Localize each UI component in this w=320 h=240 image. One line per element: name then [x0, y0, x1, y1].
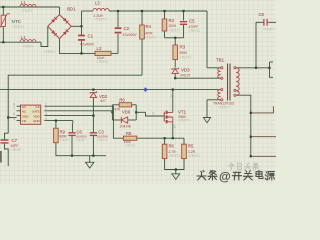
svg-text:<TEXT>: <TEXT> [169, 154, 181, 158]
svg-text:200K: 200K [169, 24, 178, 28]
wire secondary out bracket [270, 62, 274, 77]
wire HV rail after L3 [109, 10, 207, 12]
wire AC live top rail [0, 6, 60, 8]
capacitor C6 [68, 133, 75, 136]
svg-text:4V7: 4V7 [100, 99, 106, 103]
winding secondary [236, 68, 239, 96]
svg-text:VT1: VT1 [178, 109, 187, 114]
node sense left [164, 137, 166, 139]
svg-text:L1: L1 [21, 35, 26, 40]
wire R2 bottom lead [164, 31, 166, 38]
node C8 tap [255, 67, 257, 69]
wire R3 top lead [174, 38, 176, 45]
wire C2 bottom lead [117, 34, 119, 53]
svg-text:<TEXT>: <TEXT> [97, 60, 109, 64]
resistor R2 [162, 19, 167, 31]
capacitor C1 [78, 35, 85, 37]
wire positive riser to HV rail [81, 11, 83, 26]
inductor L2 [95, 51, 111, 55]
svg-text:<TEXT>: <TEXT> [218, 106, 230, 110]
wire R8 to sense node [137, 137, 184, 139]
svg-text:C5: C5 [189, 18, 195, 23]
svg-text:<TEXT>: <TEXT> [263, 27, 275, 31]
wire secondary bottom route [236, 95, 251, 156]
watermark ghost ri [238, 163, 242, 169]
wire sense R left top lead [164, 138, 166, 144]
wire NTC top lead [2, 7, 4, 15]
resistor R6 [119, 103, 131, 107]
svg-text:R5: R5 [188, 144, 194, 149]
wire gate net right bar [135, 105, 137, 120]
svg-text:L3: L3 [95, 1, 100, 6]
wire aux return down [206, 100, 208, 118]
wire R9 top lead [55, 121, 57, 129]
svg-text:<TEXT>: <TEXT> [180, 55, 192, 59]
node sense gnd [175, 168, 177, 170]
node VD3 clamp junction [174, 77, 176, 79]
node R4 top [141, 10, 143, 12]
svg-text:<TEXT>: <TEXT> [12, 25, 25, 29]
svg-text:R6: R6 [169, 144, 175, 149]
svg-text:1: 1 [170, 94, 172, 98]
winding primary [218, 68, 221, 78]
wire VD6 left lead [112, 119, 121, 121]
node gate network left [111, 111, 113, 113]
wire drain rail [0, 89, 221, 91]
svg-text:GATE: GATE [32, 110, 40, 114]
wire gate jog to VT1 gate [146, 112, 164, 116]
transformer pin circles [221, 67, 223, 69]
wire HV feed rail to IC [8, 75, 142, 133]
svg-text:R8: R8 [126, 131, 132, 136]
wire VD2 bottom lead [92, 98, 94, 116]
svg-text:VD3: VD3 [181, 67, 190, 72]
svg-text:47u/400V: 47u/400V [80, 43, 95, 47]
node AC live junction [2, 6, 4, 8]
wire top vertical into bridge [59, 7, 61, 15]
diode VD3 [172, 68, 178, 74]
node C5 top [182, 10, 184, 12]
node secondary out [268, 67, 270, 69]
svg-text:<TEXT>: <TEXT> [11, 148, 23, 152]
wire sec branch1 [251, 106, 274, 113]
wire gate net to jog [136, 111, 145, 113]
wire sec branch3 [251, 155, 276, 157]
ground primary side [203, 118, 210, 123]
wire IC pin3 line [44, 115, 93, 117]
wire C1 bottom lead [81, 41, 83, 53]
wire VD6 right lead [128, 119, 137, 121]
watermark ghost tiao [252, 163, 258, 170]
wire C3 bottom lead [92, 136, 94, 156]
svg-text:3: 3 [174, 125, 176, 129]
watermark ghost jin [229, 163, 235, 170]
svg-text:NTC: NTC [12, 19, 22, 24]
wire gnd stub [89, 156, 91, 163]
wire R9 bottom to gnd rail [56, 143, 106, 156]
wire sense gnd stub [175, 170, 177, 174]
svg-text:6: 6 [13, 112, 15, 116]
resistor R3 [173, 45, 178, 60]
resistor R4 [140, 25, 145, 39]
wire snubber bottom link [165, 37, 184, 39]
ground sense [172, 174, 180, 180]
svg-text:<TEXT>: <TEXT> [75, 138, 86, 142]
wire pin4 to C6 top [72, 121, 74, 123]
wire IC pin1 CS line [44, 106, 123, 138]
node origin marker [143, 87, 147, 92]
capacitor C3 [90, 133, 97, 136]
svg-text:<TEXT>: <TEXT> [22, 45, 34, 49]
svg-text:47R: 47R [114, 107, 121, 111]
capacitor C7 [1, 140, 9, 143]
svg-text:C7: C7 [12, 138, 18, 143]
bridge rectifier BD1 [48, 15, 71, 39]
wire clamp to primary pin2 [175, 77, 220, 79]
capacitor C8 [264, 19, 267, 26]
wire IC left pin stub 3 [17, 115, 21, 117]
node C3 bottom [92, 155, 94, 157]
wire C6 top lead [71, 123, 73, 132]
ground IC side [86, 162, 94, 168]
node IC pin6 tap [7, 116, 9, 118]
diode VD2 [90, 91, 96, 97]
svg-text:<TEXT>: <TEXT> [178, 119, 190, 123]
capacitor C5 [180, 22, 187, 25]
svg-text:@: @ [219, 170, 231, 184]
wire AC neutral bottom rail [0, 41, 41, 43]
wire C8 drop [255, 22, 257, 68]
wire sense bottom join [165, 159, 184, 170]
wire C2 top lead [117, 11, 119, 27]
svg-text:<TEXT>: <TEXT> [21, 9, 33, 13]
node AC neutral junction [2, 41, 4, 43]
resistor R5 sense [162, 144, 167, 158]
svg-text:8: 8 [13, 103, 15, 107]
watermark yuan [265, 172, 274, 181]
wire IC pin6 stub [8, 117, 16, 119]
svg-text:<TEXT>: <TEXT> [169, 28, 181, 32]
wire HV rail left part [82, 10, 94, 12]
resistor R7 sense [182, 144, 187, 158]
svg-text:BD1: BD1 [67, 7, 76, 12]
svg-text:2: 2 [45, 107, 47, 111]
wire secondary out bracket top [270, 61, 274, 63]
svg-text:<TEXT>: <TEXT> [44, 50, 56, 54]
wire C8 left lead [256, 21, 264, 23]
svg-text:<TEXT>: <TEXT> [97, 138, 108, 142]
svg-text:HV: HV [22, 105, 26, 109]
wire transformer primary top pin [207, 67, 221, 69]
transistor VT1 [163, 112, 165, 122]
svg-text:TB1: TB1 [216, 57, 225, 62]
svg-text:1: 1 [45, 103, 47, 107]
inductor L3 [93, 8, 109, 11]
svg-text:<TEXT>: <TEXT> [188, 154, 200, 158]
svg-text:L1: L1 [21, 0, 26, 5]
node C1 negative junction [80, 52, 82, 54]
svg-text:VDD: VDD [33, 114, 40, 118]
wire R4 top lead [141, 11, 143, 25]
wire C8 right lead [267, 21, 276, 23]
node R2 top [163, 10, 165, 12]
node VDD junction [92, 115, 94, 117]
node C6 bottom [71, 155, 73, 157]
wire sense R right top lead [183, 138, 185, 144]
wire bridge bottom to negative rail [60, 39, 96, 54]
wire bridge right vertex to junction [71, 25, 81, 27]
watermark ghost tou [244, 163, 250, 170]
wire C3 top lead [92, 116, 94, 133]
svg-text:L2: L2 [97, 46, 102, 51]
resistor R9 [54, 128, 59, 143]
watermark kai [232, 172, 241, 180]
svg-text:7: 7 [13, 107, 15, 111]
wire IC left pin stub 4 [17, 120, 21, 122]
watermark guan [243, 171, 252, 180]
svg-text:4: 4 [45, 117, 47, 121]
wire gate net left bar [111, 105, 113, 120]
winding aux [218, 90, 221, 100]
svg-text:C2: C2 [124, 26, 130, 31]
svg-text:590K: 590K [180, 51, 189, 55]
wire VT1 source vertical [172, 124, 174, 139]
wire R3 to VD3 [174, 60, 176, 68]
svg-text:R4: R4 [146, 24, 152, 29]
resistor R8 [123, 136, 136, 140]
wire IC left pin stub 2 [17, 110, 21, 112]
op-amp U1 power controller IC [21, 105, 41, 124]
wire neutral to bridge left vertex [41, 27, 48, 47]
wire aux bottom pin [207, 99, 221, 101]
node C2 top [117, 10, 119, 12]
svg-text:R6: R6 [119, 97, 125, 102]
svg-text:FR107: FR107 [181, 73, 191, 77]
inductor L1 bottom [20, 40, 36, 43]
svg-text:1N4148: 1N4148 [120, 124, 131, 128]
inductor L1 top [20, 4, 36, 7]
wire negative rail L2 right to C2 [111, 52, 118, 54]
svg-text:VD6: VD6 [122, 110, 131, 115]
wire C5 top lead [183, 11, 185, 21]
svg-text:R2: R2 [169, 18, 175, 23]
svg-text:CS: CS [36, 105, 40, 109]
node gate network right [135, 111, 137, 113]
svg-text:<TEXT>: <TEXT> [125, 144, 136, 148]
wire C5 bottom lead [183, 25, 185, 38]
svg-text:<TEXT>: <TEXT> [95, 18, 107, 22]
diode VD6 [121, 117, 127, 123]
node R9 top tap [55, 120, 57, 122]
svg-text:GND: GND [22, 114, 30, 118]
wire R4 bottom lead [141, 39, 143, 75]
wire NTC bottom lead [2, 27, 4, 43]
wire R2 top lead [164, 11, 166, 19]
wire secondary top pin [236, 67, 270, 69]
svg-text:<TEXT>: <TEXT> [189, 29, 201, 33]
svg-text:R3: R3 [180, 44, 186, 49]
wire IC left pin stub 1 [17, 105, 21, 107]
wire R6 left lead [112, 104, 119, 106]
watermark tiao [208, 171, 217, 181]
wire C7 top jog [5, 133, 9, 139]
svg-text:47u/400V: 47u/400V [123, 33, 138, 37]
node sec tap2 [250, 136, 252, 138]
wire HV rail down to transformer [206, 11, 208, 68]
svg-text:C8: C8 [259, 12, 265, 17]
node bridge positive output [80, 25, 82, 27]
node drain junction [172, 89, 174, 91]
node sec tap3 [250, 155, 252, 157]
wire IC pin4 line [44, 120, 73, 122]
node R3 top [174, 37, 176, 39]
wire R6 right lead [132, 104, 137, 106]
svg-text:2: 2 [152, 111, 154, 115]
thermistor NTC [1, 15, 5, 26]
svg-text:5: 5 [13, 117, 15, 121]
node VD2 top [92, 89, 94, 91]
wire C1 top lead [81, 26, 83, 34]
watermark tou [197, 171, 206, 181]
transformer core [228, 64, 230, 101]
svg-text:3: 3 [45, 112, 47, 116]
svg-text:<TEXT>: <TEXT> [59, 138, 70, 142]
wire VD3 bottom lead [174, 73, 176, 78]
wire C7 bottom jog [5, 144, 9, 167]
cropped component left edge [0, 151, 2, 163]
svg-text:<TEXT>: <TEXT> [145, 36, 157, 40]
svg-text:C1: C1 [88, 34, 94, 39]
watermark dian [256, 171, 263, 179]
node sec tap1 [250, 112, 252, 114]
wire IC pin2 line [44, 110, 112, 112]
node source sense [172, 137, 174, 139]
capacitor C2 [115, 27, 122, 29]
svg-text:GND: GND [33, 119, 41, 123]
wire sec branch2 [251, 136, 276, 138]
wire C6 bottom lead [71, 136, 73, 156]
wire drain vertical [172, 90, 174, 112]
